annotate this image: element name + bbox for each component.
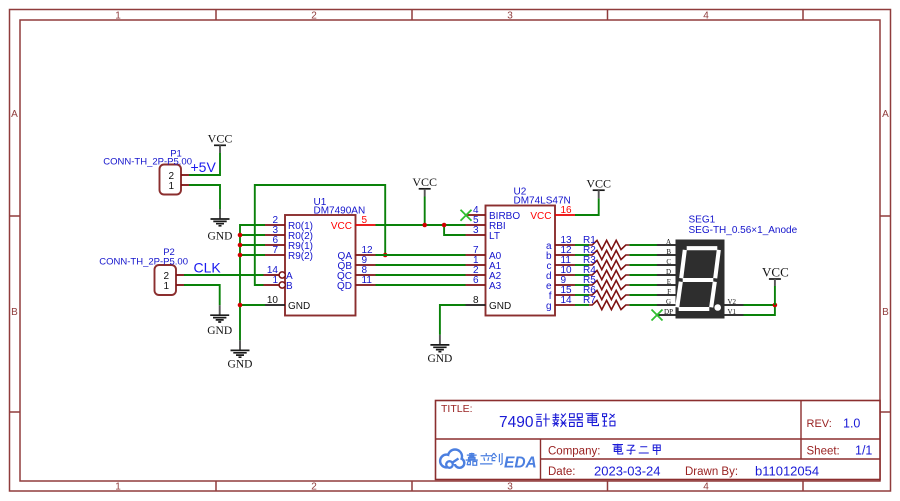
U2 pin 10 d xyxy=(546,265,575,282)
wire QC to A2 xyxy=(376,274,466,276)
svg-text:b11012054: b11012054 xyxy=(755,464,819,479)
svg-text:6: 6 xyxy=(473,275,479,286)
SEG1 pin DP xyxy=(657,308,676,316)
svg-text:R9(2): R9(2) xyxy=(288,251,313,262)
svg-text:CONN-TH_2P-P5.00: CONN-TH_2P-P5.00 xyxy=(99,257,188,268)
wire net R0/R9 bus: U1 pin2 left then down to GND xyxy=(240,225,265,340)
U1 pin 11 QD xyxy=(337,275,376,292)
svg-text:A3: A3 xyxy=(489,281,502,292)
svg-text:14: 14 xyxy=(561,295,573,306)
wire U2 pin16 to VCC flag xyxy=(575,198,599,215)
svg-text:VCC: VCC xyxy=(762,265,789,280)
no-connect flag U2 pin 4 xyxy=(461,210,472,221)
power flag VCC (SEG1) xyxy=(762,265,789,287)
U2 pin 11 c xyxy=(547,255,576,272)
wire net QA to U1 pin B feedback xyxy=(255,185,385,285)
svg-text:VCC: VCC xyxy=(530,211,551,222)
SEG1 pin D xyxy=(657,268,676,276)
wire U2 c to R3 xyxy=(575,264,589,266)
SEG1 pin G xyxy=(657,298,676,306)
svg-text:CLK: CLK xyxy=(194,260,222,276)
svg-text:LT: LT xyxy=(489,231,500,242)
power flag VCC (net +5V) xyxy=(208,132,233,154)
svg-text:VCC: VCC xyxy=(331,221,352,232)
wire GND: P1 pin1 down xyxy=(189,185,220,209)
svg-text:G: G xyxy=(666,298,671,306)
svg-text:16: 16 xyxy=(561,205,573,216)
svg-text:EDA: EDA xyxy=(504,455,537,472)
junction LT branch xyxy=(442,223,447,228)
svg-text:C: C xyxy=(666,258,671,266)
svg-text:A: A xyxy=(666,238,671,246)
power flag VCC (U2) xyxy=(586,177,611,199)
svg-text:2: 2 xyxy=(311,482,317,493)
svg-text:7: 7 xyxy=(272,245,278,256)
wire R2 to SEG1 pin B xyxy=(629,254,657,256)
P1 pin 2 xyxy=(181,174,189,176)
svg-text:GND: GND xyxy=(208,231,233,243)
wire branch to U1 pin3 xyxy=(240,234,265,236)
connector P2 xyxy=(155,265,185,295)
svg-text:10: 10 xyxy=(267,295,279,306)
P1 pin 1 xyxy=(181,184,189,186)
junction V2/V1 xyxy=(773,303,778,308)
wire VCC flag stem (mid) xyxy=(424,197,426,226)
svg-text:Date:: Date: xyxy=(548,466,576,478)
svg-text:+5V: +5V xyxy=(191,159,217,175)
svg-text:3: 3 xyxy=(507,482,513,493)
svg-text:3: 3 xyxy=(507,11,513,22)
svg-text:GND: GND xyxy=(228,359,253,371)
svg-text:B: B xyxy=(666,248,671,256)
svg-text:g: g xyxy=(546,301,552,312)
junction at pin3 row xyxy=(238,233,243,238)
svg-text:7490: 7490 xyxy=(499,414,534,431)
wire R6 to SEG1 pin F xyxy=(629,294,657,296)
wire R7 to SEG1 pin G xyxy=(629,304,657,306)
svg-text:SEG-TH_0.56×1_Anode: SEG-TH_0.56×1_Anode xyxy=(689,225,798,236)
svg-text:5: 5 xyxy=(362,215,368,226)
svg-text:1: 1 xyxy=(115,482,121,493)
SEG1 pin C xyxy=(657,258,676,266)
op IC U1 DM7490AN body xyxy=(285,215,356,316)
svg-text:VCC: VCC xyxy=(586,177,611,191)
ground symbol GND (U1) xyxy=(228,340,253,370)
U2 pin 4 BIRBO xyxy=(466,205,521,222)
SEG1 pin V1 xyxy=(725,308,744,316)
svg-text:1: 1 xyxy=(272,275,278,286)
wire U2 pin8 to ground xyxy=(440,305,466,335)
svg-text:Sheet:: Sheet: xyxy=(807,446,840,458)
U1 pin 6 R9(1) xyxy=(265,235,313,252)
wire U2 a to R1 xyxy=(575,244,589,246)
U2 pin 1 A1 xyxy=(466,255,502,272)
resistor R3 xyxy=(583,255,629,270)
U2 pin 2 A2 xyxy=(466,265,502,282)
title text 7490 counter circuit xyxy=(499,413,615,431)
svg-text:1: 1 xyxy=(168,181,174,192)
wire U2 d to R4 xyxy=(575,274,589,276)
wire U2 b to R2 xyxy=(575,254,589,256)
junction at pin6 row xyxy=(238,243,243,248)
U2 pin 6 A3 xyxy=(466,275,502,292)
wire branch to U1 pin6 xyxy=(240,244,265,246)
svg-text:2: 2 xyxy=(311,11,317,22)
svg-text:1.0: 1.0 xyxy=(843,417,860,431)
U1 pin 9 QB xyxy=(338,255,376,272)
svg-text:QD: QD xyxy=(337,281,352,292)
U2 pin 15 f xyxy=(549,285,575,302)
svg-text:4: 4 xyxy=(703,11,709,22)
svg-text:DM7490AN: DM7490AN xyxy=(314,206,366,217)
svg-text:Drawn By:: Drawn By: xyxy=(685,466,738,478)
svg-text:SEG1: SEG1 xyxy=(689,215,716,226)
ground symbol GND (P1) xyxy=(208,209,233,243)
U2 pin 9 e xyxy=(546,275,575,292)
IC U2 DM74LS47N body xyxy=(486,206,556,316)
U1 pin 7 R9(2) xyxy=(265,245,313,262)
svg-text:TITLE:: TITLE: xyxy=(441,403,473,415)
wire R1 to SEG1 pin A xyxy=(629,244,657,246)
connector P1 xyxy=(160,165,190,195)
svg-text:GND: GND xyxy=(489,301,511,312)
junction at pin7 row xyxy=(238,253,243,258)
U2 pin 8 GND xyxy=(466,295,512,312)
wire QB to A1 xyxy=(376,264,466,266)
svg-text:GND: GND xyxy=(288,301,310,312)
U2 pin 3 LT xyxy=(466,225,500,242)
wire branch to U1 pin7 xyxy=(240,254,265,256)
SEG1 pin A xyxy=(657,238,676,246)
U1 pin 5 VCC xyxy=(331,215,376,232)
resistor R6 xyxy=(583,285,629,300)
junction at pin10 row xyxy=(238,303,243,308)
svg-text:DP: DP xyxy=(664,308,673,316)
wire U2 f to R6 xyxy=(575,294,589,296)
wire R5 to SEG1 pin E xyxy=(629,284,657,286)
svg-text:V1: V1 xyxy=(728,308,737,316)
no-connect flag SEG1 DP xyxy=(652,310,663,321)
junction VCC stem xyxy=(422,223,427,228)
SEG1 pin V2 xyxy=(725,298,744,306)
junction QA feedback xyxy=(383,253,388,258)
svg-text:A: A xyxy=(882,109,889,120)
wire QA to A0 xyxy=(376,254,466,256)
wire +5V: P1 pin2 to VCC flag xyxy=(189,153,220,175)
SEG1 digit segments xyxy=(677,248,719,309)
U1 pin 8 QC xyxy=(337,265,376,282)
wire U2 e to R5 xyxy=(575,284,589,286)
svg-text:CONN-TH_2P-P5.00: CONN-TH_2P-P5.00 xyxy=(103,157,192,168)
resistor R1 xyxy=(583,235,629,250)
svg-text:4: 4 xyxy=(703,482,709,493)
resistor R4 xyxy=(583,265,629,280)
svg-text:F: F xyxy=(667,288,671,296)
P2 pin 2 xyxy=(176,274,184,276)
wire CLK: P2 pin2 to U1 pin14 xyxy=(184,274,264,276)
wire branch to U2 LT pin3 xyxy=(444,225,465,235)
7-segment display SEG1 xyxy=(676,240,725,319)
wire R4 to SEG1 pin D xyxy=(629,274,657,276)
svg-text:GND: GND xyxy=(207,325,232,337)
svg-text:D: D xyxy=(666,268,671,276)
U1 pin 10 GND xyxy=(265,295,310,312)
svg-text:GND: GND xyxy=(427,353,452,365)
wire QD to A3 xyxy=(376,284,466,286)
wire V1 to VCC xyxy=(744,305,775,315)
U1 pin 14 A (clock input, inverted) xyxy=(264,265,294,282)
svg-text:A: A xyxy=(11,109,18,120)
wire VCC flag stem (SEG1) xyxy=(774,286,776,305)
svg-text:1: 1 xyxy=(115,11,121,22)
U2 pin 13 a xyxy=(546,235,575,252)
wire VCC row: U1 pin5 to U2 pin5 RBI xyxy=(376,224,466,226)
svg-text:8: 8 xyxy=(473,295,479,306)
svg-text:REV:: REV: xyxy=(807,418,832,430)
wire branch to U1 pin10 GND xyxy=(240,304,265,306)
svg-text:1/1: 1/1 xyxy=(855,444,872,458)
ground symbol GND (U2) xyxy=(427,335,452,365)
U1 pin 12 QA xyxy=(338,245,376,262)
resistor R2 xyxy=(583,245,629,260)
svg-text:VCC: VCC xyxy=(412,175,437,189)
U1 pin 2 R0(1) xyxy=(265,215,313,232)
U2 pin 7 A0 xyxy=(466,245,502,262)
wire R3 to SEG1 pin C xyxy=(629,264,657,266)
power flag VCC (mid) xyxy=(412,175,437,197)
wire GND: P2 pin1 down xyxy=(184,285,220,305)
svg-text:Company:: Company: xyxy=(548,446,600,458)
svg-text:2023-03-24: 2023-03-24 xyxy=(594,464,661,479)
JLC EDA logo xyxy=(439,448,537,471)
wire U2 g to R7 xyxy=(575,304,589,306)
svg-text:B: B xyxy=(11,307,18,318)
svg-text:11: 11 xyxy=(362,275,373,286)
svg-text:VCC: VCC xyxy=(208,132,233,146)
SEG1 pin F xyxy=(657,288,676,296)
resistor R5 xyxy=(583,275,629,290)
resistor R7 xyxy=(583,295,629,310)
U2 pin 12 b xyxy=(546,245,575,262)
wire V2 to VCC xyxy=(744,304,775,306)
svg-text:3: 3 xyxy=(473,225,479,236)
svg-text:1: 1 xyxy=(163,281,169,292)
company name xyxy=(613,444,661,455)
svg-text:B: B xyxy=(882,307,889,318)
U1 pin 1 B (inverted) xyxy=(264,275,294,292)
title block grid xyxy=(436,401,881,480)
SEG1 pin E xyxy=(657,278,676,286)
U1 pin 3 R0(2) xyxy=(265,225,313,242)
svg-text:R7: R7 xyxy=(583,295,596,306)
ground symbol GND (P2) xyxy=(207,305,232,337)
svg-text:V2: V2 xyxy=(728,298,737,306)
SEG1 decimal point xyxy=(714,304,721,311)
SEG1 pin B xyxy=(657,248,676,256)
U2 pin 14 g xyxy=(546,295,575,312)
svg-text:E: E xyxy=(667,278,671,286)
U2 pin 16 VCC xyxy=(530,205,575,222)
svg-text:B: B xyxy=(286,281,293,292)
P2 pin 1 xyxy=(176,284,184,286)
U2 pin 5 RBI xyxy=(466,215,506,232)
